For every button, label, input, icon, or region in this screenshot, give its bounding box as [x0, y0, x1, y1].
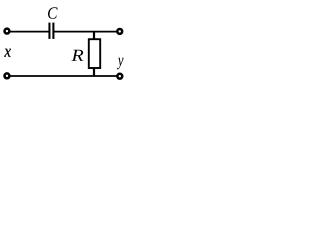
- resistor label R: [71, 50, 83, 61]
- resistor R1 body: [89, 39, 100, 68]
- terminal top-left (node x): [5, 29, 10, 34]
- terminal top-right: [117, 29, 122, 34]
- capacitor C1 right plate: [52, 23, 54, 39]
- terminal bottom-left: [5, 73, 10, 78]
- wire top-right segment (capacitor to node y rail): [53, 31, 119, 33]
- wire bottom rail: [7, 75, 120, 77]
- node label x: [4, 49, 11, 57]
- wire resistor top lead: [93, 32, 95, 40]
- wire top-left segment (node x to capacitor): [7, 31, 49, 33]
- terminal bottom-right (node y): [117, 74, 122, 79]
- wire resistor bottom lead: [93, 68, 95, 76]
- capacitor C1 left plate: [48, 23, 50, 39]
- node label y: [117, 58, 124, 70]
- capacitor label C: [48, 7, 58, 18]
